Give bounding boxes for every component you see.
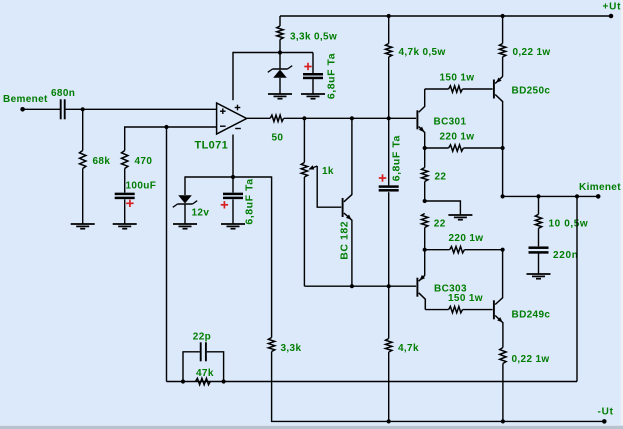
wire 220n to ground	[538, 253, 540, 274]
junction -Ut / 4,7k	[387, 419, 391, 423]
junction input / 68k	[81, 107, 85, 111]
wire 0,22 to BD250c emitter	[502, 57, 504, 76]
plus mark cap+	[304, 63, 311, 70]
svg-text:100uF: 100uF	[126, 181, 157, 192]
wire V- node horizontal	[185, 176, 272, 178]
svg-text:BD249c: BD249c	[512, 310, 551, 321]
wire BD250c collector to output	[502, 101, 504, 196]
wire zener- top lead	[184, 176, 186, 195]
junction 22/22 midpoint	[423, 199, 427, 203]
resistor 3,3k negative	[268, 338, 274, 352]
label 3,3k negative	[281, 343, 302, 354]
zener diode positive rail	[268, 66, 292, 78]
svg-text:3,3k: 3,3k	[281, 343, 302, 354]
wire V+ node to cap	[280, 53, 313, 74]
label 4,7k bottom	[398, 343, 419, 354]
plus mark cap-	[221, 201, 228, 208]
wire cap mid top lead	[388, 118, 390, 185]
svg-text:0,22 1w: 0,22 1w	[513, 47, 551, 58]
wire 220 upper right lead	[463, 147, 502, 149]
resistor 50	[270, 115, 283, 121]
resistor 0,22 1w bottom	[500, 348, 506, 364]
svg-text:4,7k 0,5w: 4,7k 0,5w	[399, 47, 446, 58]
wire 22 first bottom lead	[424, 182, 426, 202]
label 0,22 1w top	[513, 47, 551, 58]
transistor BC301	[416, 110, 424, 148]
label 68k	[93, 156, 111, 167]
svg-text:6,8uF Ta: 6,8uF Ta	[243, 178, 255, 224]
svg-text:BC301: BC301	[434, 117, 467, 128]
window right edge strip	[621, 0, 623, 425]
wire 4,7k 0,5w bottom lead	[388, 57, 390, 118]
wire input to cap	[23, 108, 60, 110]
wire cap mid bottom lead	[388, 192, 390, 286]
label 12v	[192, 208, 210, 219]
wire midpoint to ground	[425, 201, 461, 215]
svg-text:1k: 1k	[322, 166, 334, 177]
junction V+ node	[278, 50, 282, 54]
wire 68k bottom lead	[82, 169, 84, 225]
label 150 1w upper	[440, 73, 475, 84]
wire 4,7k bottom to -Ut	[388, 352, 390, 421]
svg-text:22p: 22p	[193, 331, 211, 342]
ground midpoint	[448, 215, 472, 220]
wire 22p loop	[183, 352, 224, 382]
capacitor 6,8uF Ta negative	[223, 193, 243, 200]
wire 22 second bottom lead	[424, 228, 426, 250]
ground 220n	[527, 274, 551, 279]
junction 220 lower / output rail	[501, 248, 505, 252]
wire 4,7k bottom top lead	[388, 286, 390, 338]
wire 3,3k bottom lead	[279, 39, 281, 52]
op-amp TL071 triangle	[217, 103, 247, 134]
wire BC303 collector to 150	[425, 309, 448, 311]
op-amp minus input mark	[220, 125, 226, 127]
ground 68k	[71, 224, 95, 229]
wire cap to op-amp + input	[66, 108, 217, 110]
junction 22 second / 220 lower	[423, 248, 427, 252]
svg-text:150 1w: 150 1w	[440, 73, 475, 84]
wire feedback vertical right	[576, 196, 578, 381]
wire 0,22 top lead	[502, 16, 504, 44]
plus mark cap mid	[379, 174, 386, 181]
resistor 22 second	[422, 214, 428, 228]
ground cap-	[221, 224, 245, 229]
svg-text:12v: 12v	[192, 208, 210, 219]
junction 50 / 1k pot	[302, 116, 306, 120]
wire zener+ top lead	[279, 53, 281, 69]
svg-text:220n: 220n	[553, 250, 579, 261]
resistor 47k	[196, 378, 211, 384]
label -Ut	[598, 407, 614, 418]
svg-text:Kimenet: Kimenet	[579, 182, 621, 193]
wire 22 first top lead	[424, 148, 426, 168]
label 6,8uF Ta positive	[325, 53, 337, 99]
ground zener-	[173, 224, 197, 229]
ground zener+	[268, 94, 292, 99]
wire 10 to 220n	[538, 228, 540, 246]
junction output / feedback	[575, 194, 579, 198]
svg-text:Bemenet: Bemenet	[3, 94, 48, 105]
resistor 4,7k bottom	[386, 339, 392, 353]
junction top rail / 4,7k	[387, 14, 391, 18]
capacitor 100uF	[115, 193, 135, 200]
wire 100uF to ground	[124, 199, 126, 224]
resistor 0,22 1w top	[499, 44, 505, 57]
wire 220 lower right lead	[464, 249, 502, 251]
wire feedback node to op-amp -	[167, 126, 217, 128]
label 50	[272, 133, 284, 144]
label 47k	[196, 368, 214, 379]
window bottom edge strip	[0, 425, 623, 429]
wire pot bottom lead	[303, 177, 305, 286]
capacitor 220n	[529, 246, 549, 253]
junction output / zobel	[536, 194, 540, 198]
resistor 4,7k 0,5w	[386, 44, 392, 57]
wire 150 to BD250c base	[463, 88, 493, 90]
wire 470 to 100uF	[124, 169, 126, 193]
svg-text:68k: 68k	[93, 156, 111, 167]
wire output node	[503, 195, 599, 197]
op-amp V+ pin mark	[235, 105, 241, 111]
wire 50 to driver line	[284, 117, 417, 119]
wire 10 top lead	[538, 196, 540, 214]
wire feedback horizontal	[167, 381, 578, 383]
junction inverting input	[164, 125, 168, 129]
svg-text:220 1w: 220 1w	[449, 233, 484, 244]
transistor BD250c	[493, 76, 503, 102]
label BC303	[434, 284, 467, 295]
wire zener+ bottom lead	[279, 78, 281, 94]
wire cap- top lead	[232, 177, 234, 193]
label 220 1w lower	[449, 233, 484, 244]
wire 150 lower to BD249c base	[463, 309, 493, 311]
junction output rail	[501, 194, 505, 198]
transistor BD249c	[493, 298, 503, 323]
wire BC182 collector	[351, 118, 353, 195]
resistor 470	[122, 151, 128, 169]
junction -Ut / 0,22	[501, 419, 505, 423]
svg-text:220 1w: 220 1w	[440, 132, 475, 143]
label 150 1w lower	[448, 293, 483, 304]
label 100uF	[126, 181, 157, 192]
capacitor 680n	[60, 99, 66, 119]
label Kimenet	[579, 182, 621, 193]
label 6,8uF Ta negative	[243, 178, 255, 224]
svg-text:50: 50	[272, 133, 284, 144]
op-amp V- pin mark	[235, 128, 241, 130]
label 4,7k 0,5w	[399, 47, 446, 58]
net +Ut label	[603, 2, 622, 13]
wire zener- bottom lead	[184, 204, 186, 224]
svg-text:150 1w: 150 1w	[448, 293, 483, 304]
label 22 first	[435, 172, 447, 183]
wire 470 top lead	[125, 127, 167, 151]
pot wiper arrow	[308, 165, 317, 169]
svg-text:47k: 47k	[196, 368, 214, 379]
wire V+ node to op-amp	[233, 52, 280, 100]
wire op-amp out	[247, 117, 271, 119]
junction BC182 emitter / mid rail	[350, 284, 354, 288]
label 22 second	[434, 219, 446, 230]
svg-text:0,22 1w: 0,22 1w	[512, 354, 550, 365]
svg-text:+Ut: +Ut	[603, 2, 622, 13]
terminal -Ut	[602, 419, 607, 424]
resistor 68k	[80, 151, 86, 169]
svg-text:470: 470	[135, 156, 153, 167]
transistor BC303	[416, 250, 425, 310]
junction top rail / 0,22	[501, 14, 505, 18]
junction BC301 emitter node	[423, 146, 427, 150]
label 0,22 1w bottom	[512, 354, 550, 365]
capacitor 22p	[200, 342, 207, 361]
label BD249c	[512, 310, 551, 321]
resistor 22 first	[422, 168, 428, 182]
resistor 220 1w lower	[450, 247, 465, 253]
wire pot top lead	[303, 118, 305, 162]
wire BC301 collector to 150	[419, 89, 449, 112]
wire 3,3k top lead	[279, 16, 281, 26]
ground 100uF	[113, 224, 137, 229]
zener diode 12v	[173, 195, 197, 207]
svg-text:TL071: TL071	[195, 140, 229, 152]
svg-text:10 0,5w: 10 0,5w	[549, 219, 589, 230]
wire pot wiper to BC182 base	[317, 166, 341, 207]
svg-text:22: 22	[435, 172, 447, 183]
wire cap+ to ground	[312, 79, 314, 94]
wire 220 lower left lead	[425, 249, 450, 251]
label 22p	[193, 331, 211, 342]
label 6,8uF Ta mid	[390, 135, 402, 181]
resistor 150 1w lower	[449, 306, 463, 312]
label 680n	[51, 88, 75, 99]
svg-text:BD250c: BD250c	[512, 86, 551, 97]
svg-text:3,3k 0,5w: 3,3k 0,5w	[290, 32, 337, 43]
wire 0,22 bottom to -Ut rail	[502, 364, 504, 422]
op-amp plus input mark	[220, 108, 226, 114]
resistor 3,3k 0,5w	[277, 26, 283, 39]
plus mark 100uF	[126, 200, 133, 207]
wire -Ut rail	[271, 420, 604, 422]
wire BD249c collector to output	[502, 250, 504, 298]
svg-text:6,8uF Ta: 6,8uF Ta	[390, 135, 402, 181]
junction cap mid / mid rail	[387, 284, 391, 288]
wire feedback vertical left	[166, 127, 168, 382]
wire 4,7k 0,5w top lead	[388, 16, 390, 44]
terminal Bemenet	[20, 107, 25, 112]
junction BC182 collector	[350, 116, 354, 120]
wire cap- bottom lead	[232, 199, 234, 224]
label BD250c	[512, 86, 551, 97]
junction 220 upper / output rail	[501, 146, 505, 150]
resistor 10 0,5w	[535, 214, 541, 228]
terminal +Ut	[609, 14, 614, 19]
wire 68k top lead	[82, 109, 84, 150]
svg-text:4,7k: 4,7k	[398, 343, 419, 354]
label BC301	[434, 117, 467, 128]
label 220n	[553, 250, 579, 261]
svg-text:-Ut: -Ut	[598, 407, 614, 418]
ground cap+	[301, 94, 325, 99]
transistor BC182	[342, 195, 352, 221]
wire mid rail	[304, 285, 416, 287]
svg-text:BC 182: BC 182	[338, 221, 350, 260]
resistor 150 1w upper	[449, 86, 463, 92]
junction 47k left	[181, 379, 185, 383]
terminal Kimenet	[596, 194, 601, 199]
wire 220 upper left lead	[425, 147, 449, 149]
junction V- node	[231, 175, 235, 179]
svg-text:680n: 680n	[51, 88, 75, 99]
wire 3,3k neg top lead	[271, 176, 273, 337]
label 220 1w upper	[440, 132, 475, 143]
junction 47k right	[222, 379, 226, 383]
label 3,3k 0,5w	[290, 32, 337, 43]
junction 6,8uF mid	[387, 116, 391, 120]
wire 3,3k neg to -Ut rail	[271, 352, 273, 422]
label 10 0,5w	[549, 219, 589, 230]
wire top +Ut rail	[280, 15, 611, 17]
wire op-amp V- pin	[232, 135, 234, 178]
label TL071	[195, 140, 229, 152]
svg-text:6,8uF Ta: 6,8uF Ta	[325, 53, 337, 99]
potentiometer 1k	[301, 163, 307, 178]
label 1k	[322, 166, 334, 177]
resistor 220 1w upper	[449, 145, 464, 151]
wire BC182 emitter	[351, 220, 353, 287]
label BC 182	[338, 221, 350, 260]
wire BD249c emitter lead	[502, 322, 504, 347]
capacitor 6,8uF Ta mid	[379, 185, 399, 191]
label Bemenet	[3, 94, 48, 105]
label 470	[135, 156, 153, 167]
svg-text:22: 22	[434, 219, 446, 230]
capacitor 6,8uF Ta positive	[303, 73, 323, 79]
